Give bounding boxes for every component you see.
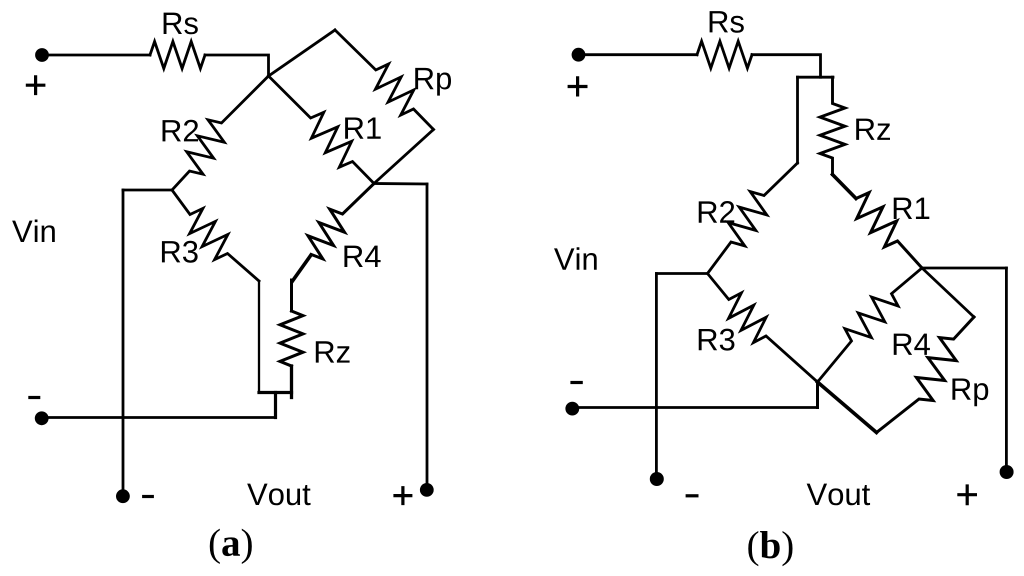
wire node C to left rail (a) (123, 189, 172, 192)
resistor R2 (a) (172, 76, 269, 190)
label R4 (a) (344, 246, 380, 267)
terminal dot Vout+ (b) (1000, 465, 1014, 479)
wire left branch down (b) (796, 77, 799, 163)
resistor Rs (b) (697, 41, 752, 68)
resistor R1 (a) (269, 76, 375, 184)
wire bracket stub (a) (274, 393, 277, 418)
label Vin (a) (12, 220, 55, 242)
label Vout (b) (807, 484, 870, 506)
caption (a) (210, 529, 252, 564)
label R4 (b) (894, 334, 930, 355)
label R3 (b) (699, 329, 735, 351)
label Rz (a) (316, 341, 350, 362)
wire Rz to R1 bold (b) (833, 175, 857, 199)
resistor R3 (b) (708, 274, 818, 383)
wire left rail down (b) (655, 274, 658, 480)
terminal dot Vout- (a) (116, 489, 130, 503)
label R1 (b) (894, 198, 930, 219)
label Rp (b) (952, 378, 988, 406)
wire node B to right rail (a) (374, 182, 427, 185)
wire node A to peak (a) (269, 30, 336, 76)
wire right rail down (b) (1005, 268, 1008, 472)
wire node C to left rail (b) (656, 272, 707, 275)
wire Rp corner to node B (a) (374, 130, 434, 184)
wire R4 to Rz corner bold (a) (293, 255, 312, 281)
label Vout (a) (247, 484, 310, 506)
wire Rs to corner (b) (752, 55, 821, 77)
resistor Rs (a) (150, 42, 205, 69)
plus sign Vout+ (a) (395, 488, 411, 504)
wire Rz top leg (a) (290, 280, 293, 311)
wire right rail down (a) (426, 184, 429, 490)
resistor R4 (a) (308, 184, 374, 259)
label Rs (b) (710, 11, 744, 33)
terminal dot Vout- (b) (650, 472, 664, 486)
terminal dot Vout+ (a) (420, 483, 434, 497)
wire node D stub (b) (816, 382, 819, 408)
wire Rp corner to node D bold (b) (818, 382, 877, 433)
wire bottom bracket (a) (259, 391, 292, 394)
resistor R2 (b) (708, 163, 798, 274)
caption (b) (748, 531, 792, 566)
label Rs (a) (164, 13, 198, 35)
wire Rz bottom leg (a) (290, 366, 293, 398)
wire R3 leg down (a) (258, 281, 260, 393)
plus sign Vin+ (b) (569, 78, 586, 95)
terminal dot Vin+ (b) (572, 48, 586, 62)
terminal dot Vin- (b) (565, 402, 579, 416)
resistor R1 (b) (856, 193, 922, 268)
resistor Rz (b) (820, 77, 845, 174)
wire Vin- bottom (a) (42, 416, 276, 419)
label R1 (a) (345, 117, 381, 138)
minus sign Vout- (a) (144, 495, 153, 498)
wire left rail down (a) (122, 190, 125, 496)
wire node E to right rail (b) (922, 267, 1006, 270)
wire top bar (b) (798, 76, 834, 79)
label Rp (a) (415, 68, 451, 96)
wire node E to Rp kink (b) (922, 268, 974, 317)
terminal dot Vin- (a) (35, 411, 49, 425)
label R2 (a) (163, 120, 199, 142)
resistor R3 (a) (172, 190, 259, 281)
minus sign Vout- (b) (687, 494, 697, 497)
wire Vin- bottom (b) (572, 406, 818, 409)
wire Rs to node A (a) (205, 55, 269, 76)
resistor Rz (a) (280, 311, 303, 366)
plus sign Vout+ (b) (959, 486, 976, 504)
plus sign Vin+ (a) (27, 77, 43, 94)
resistor Rp (b) (877, 317, 975, 433)
wire Vin+ to Rs (b) (579, 53, 698, 56)
resistor R4 (b) (818, 268, 923, 382)
label R2 (b) (699, 201, 735, 223)
wire Vin+ to Rs (a) (42, 54, 150, 57)
resistor Rp (a) (335, 30, 434, 130)
terminal dot Vin+ (a) (35, 48, 49, 62)
label R3 (a) (162, 241, 198, 263)
minus sign Vin- (b) (572, 381, 581, 384)
label Rz (b) (856, 119, 890, 140)
label Vin (b) (554, 247, 597, 269)
minus sign Vin- (a) (30, 396, 39, 399)
